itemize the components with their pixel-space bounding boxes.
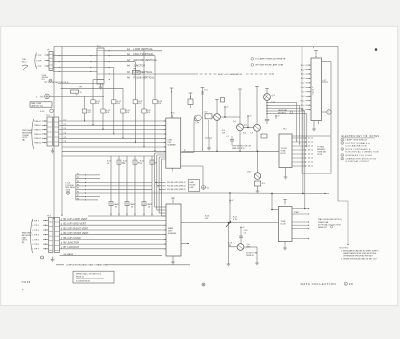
svg-text:2. TERMS SHOWN AS USED W/ KEY: 2. TERMS SHOWN AS USED W/ KEY CKT <box>341 257 378 260</box>
svg-text:NOTES:: NOTES: <box>340 247 349 249</box>
svg-text:RCVR: RCVR <box>281 153 287 155</box>
svg-text:COMPLETE RELEASE / EARLY SP: COMPLETE RELEASE / EARLY SPARE GRD <box>66 263 108 266</box>
svg-text:TST PULSE VERT (NOTE 4): TST PULSE VERT (NOTE 4) <box>44 82 69 84</box>
svg-text:L TIP: L TIP <box>37 66 42 68</box>
svg-text:2: 2 <box>342 143 343 145</box>
svg-text:B2 (UP) GRD VERT: B2 (UP) GRD VERT <box>64 224 87 226</box>
svg-text:Q-2: Q-2 <box>244 124 247 126</box>
svg-text:L TIP 5: L TIP 5 <box>33 239 40 241</box>
svg-text:PULSE LINK (PIN 4): PULSE LINK (PIN 4) <box>167 182 186 184</box>
svg-text:B3 (UP) RIGHT VERT: B3 (UP) RIGHT VERT <box>64 228 89 230</box>
svg-text:B4 (UP) START VERT: B4 (UP) START VERT <box>64 232 90 235</box>
svg-text:B7 LOCKOUT: B7 LOCKOUT <box>64 247 80 249</box>
svg-text:74105: 74105 <box>21 280 30 284</box>
svg-text:DATA OUT: DATA OUT <box>318 226 328 229</box>
svg-text:(A): (A) <box>22 139 25 142</box>
svg-text:06 -12: 06 -12 <box>308 158 313 160</box>
svg-text:R-2: R-2 <box>205 112 208 114</box>
svg-text:5: 5 <box>342 158 343 160</box>
svg-text:TP-8: TP-8 <box>171 113 175 115</box>
svg-text:2: 2 <box>36 96 37 98</box>
svg-text:L TIP: L TIP <box>37 61 42 63</box>
svg-text:SCANNER: SCANNER <box>168 144 177 147</box>
svg-text:L TIP 4: L TIP 4 <box>33 235 40 237</box>
svg-text:TP4: TP4 <box>133 69 136 71</box>
svg-text:C-9: C-9 <box>250 133 253 135</box>
svg-text:L-87: L-87 <box>323 80 326 82</box>
svg-text:LOOP VERTICAL: LOOP VERTICAL <box>134 48 154 51</box>
svg-text:L TIP 6: L TIP 6 <box>33 244 40 246</box>
svg-text:L TIP: L TIP <box>37 55 42 57</box>
svg-text:WL-1: WL-1 <box>300 100 304 102</box>
svg-text:T RNG 3: T RNG 3 <box>34 130 43 132</box>
svg-text:P7: P7 <box>77 195 79 197</box>
svg-text:BL-1: BL-1 <box>301 65 305 67</box>
svg-text:LAMP INTERFACE: LAMP INTERFACE <box>346 139 368 142</box>
svg-text:TP-1: TP-1 <box>97 46 101 48</box>
svg-text:B1 (UP) LOOP VERT: B1 (UP) LOOP VERT <box>64 219 88 221</box>
svg-text:07 -12: 07 -12 <box>308 162 313 164</box>
svg-text:F: F <box>313 48 314 50</box>
svg-text:BUSY OUT GENERATOR: BUSY OUT GENERATOR <box>218 73 243 76</box>
svg-text:02 -12: 02 -12 <box>308 142 313 144</box>
svg-text:STOP DIAL COLLECTION: STOP DIAL COLLECTION <box>318 224 341 227</box>
svg-text:BUSINESS COL LIGHT: BUSINESS COL LIGHT <box>346 155 373 157</box>
svg-text:START DIAL: START DIAL <box>318 221 329 224</box>
svg-text:Q-1: Q-1 <box>233 121 236 123</box>
svg-text:OUTPUT SIGNALS &: OUTPUT SIGNALS & <box>346 142 371 145</box>
svg-text:WL-2: WL-2 <box>300 105 304 107</box>
svg-text:1: 1 <box>342 140 343 142</box>
svg-text:T RNG 4: T RNG 4 <box>34 134 43 136</box>
svg-text:GEN CKT (C): GEN CKT (C) <box>31 106 43 108</box>
svg-text:B6 JUNCTOR: B6 JUNCTOR <box>64 243 80 245</box>
svg-text:L TIP 2: L TIP 2 <box>33 225 40 227</box>
svg-text:01 -12: 01 -12 <box>308 138 313 140</box>
svg-text:P6: P6 <box>77 191 79 193</box>
svg-text:CR-7: CR-7 <box>247 172 251 174</box>
svg-text:TP-3: TP-3 <box>47 216 51 218</box>
svg-text:2F: 2F <box>349 282 354 286</box>
svg-text:P3: P3 <box>77 181 79 183</box>
svg-text:R-9: R-9 <box>262 183 265 185</box>
svg-text:DCDR: DCDR <box>281 223 287 225</box>
svg-text:P1: P1 <box>77 173 79 175</box>
svg-text:05 -12: 05 -12 <box>308 154 313 156</box>
svg-text:GL-2: GL-2 <box>301 87 305 89</box>
svg-text:04 -12: 04 -12 <box>308 150 313 152</box>
svg-text:TO LAMP POWER (NOTE 3): TO LAMP POWER (NOTE 3) <box>255 58 282 61</box>
svg-text:B5 (UP) CONN: B5 (UP) CONN <box>64 238 81 240</box>
svg-text:BL-2: BL-2 <box>301 69 305 71</box>
svg-text:GROUND VERTICAL: GROUND VERTICAL <box>134 59 158 62</box>
svg-text:RL-1: RL-1 <box>301 74 305 76</box>
svg-text:LAST VERTICAL: LAST VERTICAL <box>134 71 153 74</box>
svg-text:4: 4 <box>342 155 343 157</box>
svg-text:OPTIONS FROM LAMP CKT: OPTIONS FROM LAMP CKT <box>255 64 283 67</box>
svg-text:SPEED CALC OF UNIT NO.4: SPEED CALC OF UNIT NO.4 <box>76 273 101 276</box>
svg-text:T: T <box>328 112 329 114</box>
svg-text:TP-2: TP-2 <box>283 129 287 131</box>
svg-text:PAGE 34: PAGE 34 <box>76 276 84 279</box>
svg-text:B8 SPARE: B8 SPARE <box>64 253 74 256</box>
svg-text:(B): (B) <box>22 242 25 244</box>
svg-text:CKTS: CKTS <box>317 154 323 156</box>
svg-text:OTHERWISE SPECIFIED PER KEY: OTHERWISE SPECIFIED PER KEY <box>343 256 374 258</box>
svg-text:SCANNER: SCANNER <box>168 232 177 235</box>
svg-text:DIAL PULSE (SEE NOTE 2): DIAL PULSE (SEE NOTE 2) <box>318 218 342 221</box>
svg-text:TONE: TONE <box>42 75 46 77</box>
svg-text:CKT: CKT <box>42 79 45 81</box>
svg-text:S-1: S-1 <box>207 187 210 189</box>
svg-text:TP-2: TP-2 <box>46 115 50 117</box>
svg-text:L TIP 3: L TIP 3 <box>33 230 40 232</box>
svg-text:P5: P5 <box>77 188 79 190</box>
svg-text:ELECTRICAL CONNECTION: ELECTRICAL CONNECTION <box>346 151 379 154</box>
svg-text:MAIN: MAIN <box>168 227 174 230</box>
svg-text:T RNG 5: T RNG 5 <box>34 138 43 140</box>
svg-text:P4: P4 <box>77 184 79 186</box>
svg-text:L TIP 7: L TIP 7 <box>33 249 40 251</box>
svg-text:TP4: TP4 <box>79 86 82 88</box>
svg-text:220: 220 <box>205 218 208 220</box>
svg-text:4 d17: 4 d17 <box>40 111 45 113</box>
svg-text:T RNG 6: T RNG 6 <box>34 143 43 145</box>
svg-text:YL-1: YL-1 <box>301 92 305 94</box>
svg-text:2: 2 <box>172 171 173 173</box>
svg-text:SL-1: SL-1 <box>301 109 305 111</box>
svg-text:T RNG 1: T RNG 1 <box>34 121 43 123</box>
svg-text:1.0: 1.0 <box>244 232 247 234</box>
svg-text:Q-4: Q-4 <box>272 95 275 97</box>
svg-text:YL-2: YL-2 <box>301 96 305 98</box>
svg-text:RL-2: RL-2 <box>301 78 305 80</box>
svg-text:R-6: R-6 <box>243 133 246 135</box>
svg-text:& DISPLAY CIRCUIT: & DISPLAY CIRCUIT <box>346 160 371 163</box>
svg-text:L TIP 1: L TIP 1 <box>33 220 40 222</box>
svg-text:DATA COLLECTION: DATA COLLECTION <box>301 282 337 286</box>
svg-text:PULSE LINK (PIN 8): PULSE LINK (PIN 8) <box>167 189 186 191</box>
svg-text:PULSE LINK (PIN 6): PULSE LINK (PIN 6) <box>167 186 186 188</box>
svg-text:1: 1 <box>345 284 346 286</box>
svg-text:CHARACTER SELECTION: CHARACTER SELECTION <box>346 157 377 160</box>
svg-text:P8: P8 <box>77 198 79 200</box>
svg-text:C-7: C-7 <box>226 136 229 138</box>
svg-text:08 -12: 08 -12 <box>308 166 313 168</box>
svg-text:GL-1: GL-1 <box>301 83 305 85</box>
svg-text:TERM 56: TERM 56 <box>246 255 254 257</box>
svg-text:NOTE CONTINUED &: NOTE CONTINUED & <box>346 149 371 151</box>
svg-text:P2: P2 <box>77 177 79 179</box>
svg-text:TRK SEL: TRK SEL <box>42 77 49 79</box>
svg-text:(SEE NOTE 3): (SEE NOTE 3) <box>232 148 245 150</box>
svg-text:S-123456789-01: S-123456789-01 <box>76 280 90 282</box>
svg-text:03 -12: 03 -12 <box>308 146 313 148</box>
svg-text:3: 3 <box>342 149 343 151</box>
svg-text:T RNG 2: T RNG 2 <box>34 125 43 127</box>
svg-text:COLLABORATION: COLLABORATION <box>346 145 367 148</box>
